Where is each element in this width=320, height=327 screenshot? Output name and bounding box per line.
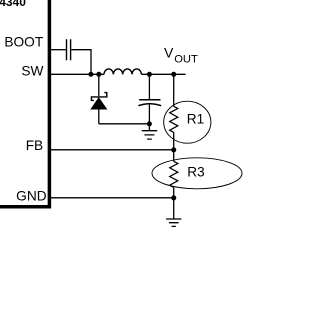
- wire diode anode down: [98, 109, 100, 124]
- wire bottom rail diode to cap ground: [99, 123, 150, 125]
- svg-text:GND: GND: [16, 188, 47, 203]
- wire GND pin: [51, 197, 174, 199]
- wire SW pin: [51, 73, 104, 75]
- resistor R3 zigzag: [170, 161, 178, 187]
- wire inductor to VOUT: [141, 73, 185, 75]
- svg-text:SW: SW: [21, 63, 43, 78]
- capacitor C-out curved bottom plate: [138, 104, 161, 106]
- resistor R1 zigzag: [170, 106, 178, 132]
- svg-text:4340: 4340: [0, 0, 26, 9]
- ellipse annotation around R3: [152, 158, 242, 189]
- wire SW to diode cathode: [98, 74, 100, 96]
- ellipse annotation around R1: [164, 101, 211, 143]
- junction dot VOUT/R1: [171, 72, 176, 77]
- junction dot output cap: [147, 72, 152, 77]
- wire FB pin: [51, 149, 174, 151]
- ground symbol at output cap: [142, 131, 158, 139]
- junction dot boot/SW: [88, 72, 93, 77]
- diode D1 cathode bar with schottky hooks: [91, 93, 106, 101]
- svg-text:OUT: OUT: [174, 54, 198, 66]
- wire R1 to FB node to R3: [173, 132, 175, 161]
- capacitor C-out top plate: [139, 99, 160, 101]
- junction dot FB: [171, 147, 176, 152]
- inductor L1: [104, 69, 141, 74]
- junction dot diode/SW: [96, 72, 101, 77]
- wire R3 to GND node to ground: [173, 187, 175, 219]
- junction dot cap/rail: [147, 121, 152, 126]
- diode D1 anode triangle: [91, 98, 107, 110]
- op-amp U1 (regulator IC box, partially visible): [0, 0, 49, 207]
- wire capacitor to SW node: [71, 50, 91, 75]
- capacitor C-boot: [67, 39, 71, 60]
- junction dot GND: [171, 195, 176, 200]
- svg-text:V: V: [164, 44, 174, 60]
- ground symbol at bottom: [166, 219, 181, 226]
- wire cap bottom to rail: [148, 104, 150, 124]
- wire VOUT to R1: [173, 74, 175, 106]
- svg-text:BOOT: BOOT: [4, 35, 43, 50]
- svg-text:R1: R1: [187, 112, 204, 127]
- wire BOOT pin to capacitor: [51, 49, 66, 51]
- wire VOUT node down to cap: [148, 74, 150, 99]
- ground stub at output cap: [148, 124, 150, 131]
- svg-text:FB: FB: [26, 138, 44, 153]
- svg-text:R3: R3: [187, 164, 204, 179]
